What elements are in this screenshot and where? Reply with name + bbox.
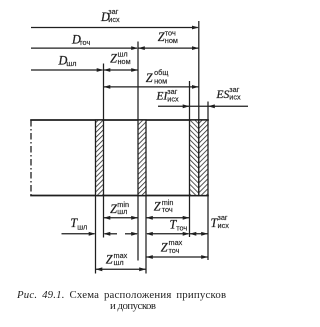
wire: dimension Z_shl^min: [104, 217, 139, 219]
node: extension line zgL upper: [189, 81, 191, 120]
svg-text:Z: Z: [110, 202, 117, 216]
svg-text:Z: Z: [158, 30, 165, 44]
wire: dimension line D_shl (grinding diameter): [31, 69, 103, 71]
wire: T_toch outside arrow left: [125, 233, 137, 235]
svg-text:Z: Z: [106, 253, 113, 267]
wire: T_toch right / T_isx left outside arrows: [147, 233, 189, 235]
node: extension line at blank nominal size zgM: [198, 21, 200, 120]
svg-text:ном: ном: [154, 76, 167, 85]
svg-text:шл: шл: [77, 222, 87, 231]
svg-text:точ: точ: [169, 246, 180, 255]
node: extension zgR lower: [207, 196, 209, 261]
wire: dimension T_isx^zag: [190, 233, 209, 235]
part outline: top edge: [30, 119, 209, 121]
wire: dimension Z_toch^min: [146, 217, 190, 219]
svg-text:точ: точ: [176, 224, 187, 233]
svg-text:ES: ES: [216, 89, 230, 101]
wire: EI/ES deviation line: [158, 105, 190, 107]
node: extension b2R lower: [145, 196, 147, 274]
svg-text:исх: исх: [218, 221, 230, 230]
node: extension line zgR upper: [207, 102, 209, 121]
wire: dimension Z_shl^max: [96, 268, 147, 270]
svg-text:шл: шл: [66, 59, 76, 68]
axis: dash-dot left edge of part: [30, 120, 32, 196]
wire: T_shl outside arrow right: [105, 233, 118, 235]
wire: dimension line Z_nom^toch: [138, 47, 199, 49]
wire: dimension line Z_nom^shl: [104, 69, 139, 71]
wire: dimension Z_toch^max: [146, 256, 208, 258]
svg-text:точ: точ: [162, 205, 173, 214]
svg-text:точ: точ: [79, 38, 90, 47]
wire: dimension line D_isx_zag (blank nominal diameter): [31, 27, 198, 29]
svg-text:исх: исх: [229, 93, 241, 102]
caption line 1: [17, 289, 226, 301]
caption line 2: [110, 300, 156, 312]
node: extension b2L lower: [137, 196, 139, 261]
node: extension b1L lower: [95, 196, 97, 274]
wire: T_shl outside arrow left: [62, 233, 95, 235]
svg-text:шл: шл: [117, 207, 127, 216]
svg-text:Z: Z: [161, 240, 168, 254]
svg-text:Z: Z: [146, 71, 153, 85]
bar T_isx_zag left half (blank tolerance, backslash hatch): [190, 120, 199, 196]
svg-text:исх: исх: [167, 94, 179, 103]
svg-text:ном: ном: [165, 36, 178, 45]
node: extension line b2L upper: [137, 42, 139, 121]
svg-text:шл: шл: [114, 258, 124, 267]
wire: dimension line D_toch (turning diameter): [31, 47, 137, 49]
svg-text:ном: ном: [118, 57, 131, 66]
svg-text:исх: исх: [108, 15, 120, 24]
node: extension line b1R upper: [103, 64, 105, 121]
node: extension b1R lower: [103, 196, 105, 238]
wire: dimension line Z_nom^obshch: [104, 86, 199, 88]
node: extension zgL lower: [189, 196, 191, 238]
svg-text:Z: Z: [110, 52, 117, 66]
part outline: bottom edge: [30, 195, 209, 197]
bar T_shl (grinding tolerance zone, slash hatch): [96, 120, 104, 196]
bar T_isx_zag right half (blank tolerance, slash hatch): [199, 120, 208, 196]
bar T_toch (turning tolerance zone, slash hatch): [138, 120, 146, 196]
svg-text:Z: Z: [154, 200, 161, 214]
